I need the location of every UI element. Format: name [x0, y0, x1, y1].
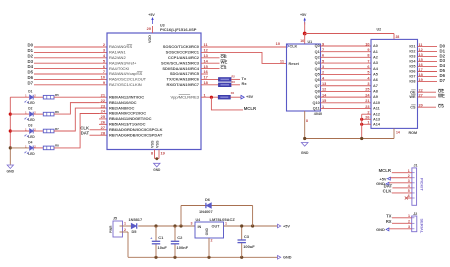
svg-text:D2: D2 — [28, 53, 34, 58]
svg-text:7: 7 — [322, 48, 324, 52]
svg-text:C2: C2 — [177, 235, 183, 240]
svg-text:D5: D5 — [28, 70, 34, 75]
svg-text:SERIAL: SERIAL — [420, 219, 425, 234]
svg-text:SCK/SCL/AN15/RC3: SCK/SCL/AN15/RC3 — [161, 60, 200, 65]
svg-text:6: 6 — [408, 194, 410, 198]
svg-text:DAT: DAT — [81, 131, 90, 136]
svg-text:D2: D2 — [28, 107, 32, 111]
svg-text:1N4007: 1N4007 — [199, 209, 213, 214]
svg-text:IO1: IO1 — [409, 45, 415, 49]
svg-text:R7: R7 — [55, 127, 59, 131]
svg-text:7: 7 — [367, 59, 369, 63]
svg-text:3: 3 — [367, 82, 369, 86]
svg-text:2: 2 — [408, 219, 410, 223]
svg-text:RA1/AN1: RA1/AN1 — [109, 50, 126, 55]
svg-text:IN: IN — [198, 225, 202, 229]
svg-text:RA4/T0CKI: RA4/T0CKI — [109, 66, 129, 71]
svg-text:28: 28 — [396, 35, 400, 39]
svg-text:VSS: VSS — [155, 140, 159, 148]
svg-text:Rx: Rx — [242, 81, 248, 86]
svg-text:2: 2 — [322, 71, 324, 75]
svg-text:A8: A8 — [373, 90, 378, 94]
svg-text:100nF: 100nF — [177, 245, 189, 250]
svg-text:RB7/ADGRDB/IOC/ICSPDAT: RB7/ADGRDB/IOC/ICSPDAT — [109, 132, 163, 137]
svg-text:RB3/AN9/CCP2/IOC: RB3/AN9/CCP2/IOC — [109, 111, 146, 116]
svg-text:CLK: CLK — [383, 189, 393, 194]
svg-text:D7: D7 — [28, 80, 34, 85]
svg-text:PICKIT: PICKIT — [420, 178, 425, 191]
svg-text:OE: OE — [410, 90, 416, 94]
svg-text:MCLR: MCLR — [379, 168, 392, 173]
svg-text:Q4: Q4 — [315, 67, 321, 71]
svg-text:D3: D3 — [28, 59, 34, 64]
svg-text:16: 16 — [419, 63, 423, 67]
svg-text:RX: RX — [386, 219, 392, 224]
svg-text:PIC16(L)F1516-I/SP: PIC16(L)F1516-I/SP — [160, 27, 197, 32]
svg-text:RB5/AN13/T1G/IOC: RB5/AN13/T1G/IOC — [109, 122, 146, 127]
svg-text:RB1/AN10/IOC: RB1/AN10/IOC — [109, 100, 137, 105]
svg-text:18: 18 — [419, 73, 423, 77]
svg-text:GND: GND — [301, 151, 309, 155]
svg-text:IO2: IO2 — [409, 50, 415, 54]
svg-text:12: 12 — [419, 48, 423, 52]
svg-text:SOSCO/T1CKI/RC0: SOSCO/T1CKI/RC0 — [163, 44, 200, 49]
svg-text:A13: A13 — [373, 117, 380, 121]
svg-text:1: 1 — [124, 222, 126, 226]
svg-text:A11: A11 — [373, 107, 380, 111]
svg-text:17: 17 — [204, 75, 208, 80]
svg-text:8: 8 — [306, 119, 308, 123]
svg-text:IO6: IO6 — [409, 70, 415, 74]
svg-text:5: 5 — [408, 189, 410, 193]
svg-text:GND: GND — [376, 227, 385, 232]
svg-text:IO3: IO3 — [409, 55, 415, 59]
svg-text:A0: A0 — [373, 44, 378, 48]
svg-text:RB2/AN8/IOC: RB2/AN8/IOC — [109, 105, 134, 110]
svg-text:27: 27 — [101, 125, 105, 130]
svg-text:10: 10 — [365, 42, 369, 46]
svg-text:IO8: IO8 — [409, 80, 415, 84]
svg-text:OE: OE — [221, 54, 227, 59]
svg-text:OUT: OUT — [211, 225, 220, 229]
svg-text:IO4: IO4 — [409, 60, 416, 64]
svg-text:A7: A7 — [373, 84, 378, 88]
svg-text:VSS: VSS — [150, 140, 154, 148]
svg-text:SDO/AN17/RC5: SDO/AN17/RC5 — [170, 71, 200, 76]
svg-text:15: 15 — [419, 58, 423, 62]
svg-text:Q2: Q2 — [315, 55, 320, 59]
svg-text:GND: GND — [7, 169, 15, 173]
svg-text:R5: R5 — [55, 93, 59, 97]
svg-text:15: 15 — [322, 99, 326, 103]
svg-text:IO7: IO7 — [409, 75, 415, 79]
svg-text:3: 3 — [408, 179, 410, 183]
svg-text:U2: U2 — [377, 27, 382, 31]
svg-text:10uF: 10uF — [158, 245, 168, 250]
svg-text:1: 1 — [408, 214, 410, 218]
svg-text:MCLR: MCLR — [244, 106, 257, 111]
svg-text:22: 22 — [419, 89, 423, 93]
svg-text:GND: GND — [205, 227, 209, 235]
svg-text:Q3: Q3 — [315, 61, 320, 65]
svg-text:SDI/SDA/AN16/RC4: SDI/SDA/AN16/RC4 — [162, 66, 199, 71]
svg-text:A5: A5 — [373, 73, 378, 77]
svg-text:23: 23 — [365, 105, 369, 109]
svg-text:SOSCI/CCP2/RC1: SOSCI/CCP2/RC1 — [166, 50, 200, 55]
svg-text:PWR: PWR — [109, 225, 113, 233]
svg-text:2: 2 — [408, 174, 410, 178]
svg-text:CS: CS — [410, 105, 416, 109]
svg-text:1: 1 — [322, 105, 324, 109]
svg-text:Tx: Tx — [242, 76, 247, 81]
svg-text:D7: D7 — [440, 78, 446, 83]
svg-text:TX: TX — [386, 214, 392, 219]
svg-text:Vpp/MCLR/RE3: Vpp/MCLR/RE3 — [171, 94, 200, 99]
svg-text:IO5: IO5 — [409, 65, 415, 69]
svg-text:LED: LED — [28, 118, 35, 122]
svg-text:RA5/AN4/Vcap/SS: RA5/AN4/Vcap/SS — [109, 71, 143, 76]
svg-text:13: 13 — [322, 82, 326, 86]
svg-text:4: 4 — [408, 184, 410, 188]
svg-text:9: 9 — [322, 42, 324, 46]
svg-text:CS: CS — [221, 65, 227, 70]
svg-text:A14: A14 — [373, 122, 381, 126]
svg-text:Reset: Reset — [289, 62, 300, 66]
svg-text:U1: U1 — [308, 40, 313, 44]
svg-text:4040: 4040 — [314, 112, 322, 116]
svg-text:R6: R6 — [55, 110, 59, 114]
svg-text:Q7: Q7 — [315, 84, 320, 88]
svg-text:RA2/AN2: RA2/AN2 — [109, 55, 126, 60]
svg-text:LED: LED — [28, 152, 35, 156]
svg-text:1: 1 — [225, 222, 227, 226]
svg-text:RA0/AN0/SS: RA0/AN0/SS — [109, 44, 132, 49]
svg-text:Q1: Q1 — [315, 50, 320, 54]
svg-text:LED: LED — [28, 101, 35, 105]
svg-text:RA6/OSC2/CLKOUT: RA6/OSC2/CLKOUT — [109, 77, 147, 82]
svg-text:CLK: CLK — [290, 44, 298, 48]
svg-text:RB4/AN11/NDGET/IOC: RB4/AN11/NDGET/IOC — [109, 116, 152, 121]
svg-text:J2: J2 — [413, 212, 417, 216]
svg-text:A2: A2 — [373, 55, 378, 59]
svg-text:RB6/ADGRDN/IOC/ICSPCLK: RB6/ADGRDN/IOC/ICSPCLK — [109, 127, 163, 132]
svg-text:A3: A3 — [373, 61, 378, 65]
svg-text:20: 20 — [147, 26, 151, 31]
svg-text:+: + — [150, 237, 152, 241]
svg-text:RB0/AN12/INT/IOC: RB0/AN12/INT/IOC — [109, 94, 144, 99]
svg-text:J1: J1 — [414, 164, 418, 168]
svg-text:GND: GND — [153, 168, 161, 172]
svg-text:A1: A1 — [373, 50, 378, 54]
svg-text:Q6: Q6 — [315, 78, 320, 82]
svg-text:100uF: 100uF — [243, 244, 255, 249]
svg-text:R3: R3 — [232, 80, 236, 84]
svg-text:R8: R8 — [55, 144, 59, 148]
svg-text:17: 17 — [419, 68, 423, 72]
svg-text:20: 20 — [419, 104, 423, 108]
svg-text:TX/CK/AN18/RC6: TX/CK/AN18/RC6 — [167, 77, 200, 82]
svg-text:R4: R4 — [231, 91, 235, 95]
svg-text:11: 11 — [419, 43, 423, 47]
svg-text:C3: C3 — [244, 234, 250, 239]
svg-text:21: 21 — [365, 99, 369, 103]
svg-text:Q5: Q5 — [315, 73, 320, 77]
svg-text:D6: D6 — [205, 197, 211, 202]
svg-text:RA3/AN3/Vref+: RA3/AN3/Vref+ — [109, 60, 137, 65]
svg-text:9: 9 — [367, 48, 369, 52]
svg-text:6: 6 — [367, 65, 369, 69]
svg-text:D1: D1 — [28, 90, 32, 94]
svg-text:2: 2 — [124, 228, 126, 232]
svg-text:16: 16 — [300, 39, 304, 43]
svg-text:Q10: Q10 — [313, 101, 320, 105]
svg-text:+5V: +5V — [148, 13, 155, 17]
svg-text:WE: WE — [221, 60, 228, 65]
svg-text:13: 13 — [419, 53, 423, 57]
svg-text:7: 7 — [103, 69, 105, 74]
svg-text:+5V: +5V — [300, 13, 307, 17]
svg-text:8: 8 — [367, 54, 369, 58]
svg-text:WE: WE — [409, 95, 416, 99]
svg-text:C1: C1 — [158, 235, 164, 240]
svg-text:10: 10 — [101, 75, 105, 80]
svg-text:D3: D3 — [28, 123, 32, 127]
svg-text:A9: A9 — [373, 95, 378, 99]
svg-text:GND: GND — [283, 256, 292, 260]
svg-text:VDD: VDD — [148, 35, 152, 43]
svg-text:12: 12 — [322, 88, 326, 92]
svg-text:LM78L05ACZ: LM78L05ACZ — [210, 217, 236, 222]
svg-text:RX/DT/AN19/RC7: RX/DT/AN19/RC7 — [167, 82, 200, 87]
svg-text:R2: R2 — [232, 75, 236, 79]
svg-text:D0: D0 — [28, 43, 34, 48]
svg-text:+5V: +5V — [246, 94, 254, 99]
svg-text:6: 6 — [322, 54, 324, 58]
svg-text:U4: U4 — [196, 218, 201, 222]
svg-text:D4: D4 — [28, 140, 32, 144]
svg-text:A12: A12 — [373, 112, 380, 116]
svg-text:D6: D6 — [28, 75, 34, 80]
svg-text:D5: D5 — [132, 229, 138, 234]
svg-text:5: 5 — [322, 59, 324, 63]
svg-text:RA7/OSC1/CLKIN: RA7/OSC1/CLKIN — [109, 82, 142, 87]
svg-text:27: 27 — [419, 93, 423, 97]
svg-text:+5V: +5V — [283, 224, 290, 228]
svg-text:2: 2 — [211, 239, 213, 243]
svg-text:LED: LED — [28, 135, 35, 139]
svg-text:3: 3 — [322, 65, 324, 69]
svg-text:14: 14 — [396, 131, 400, 135]
svg-text:D4: D4 — [28, 64, 34, 69]
svg-text:3: 3 — [408, 225, 410, 229]
svg-text:Q8: Q8 — [315, 90, 320, 94]
svg-text:CLK: CLK — [80, 125, 89, 130]
svg-text:D1: D1 — [28, 48, 34, 53]
svg-text:25: 25 — [365, 88, 369, 92]
svg-text:3: 3 — [191, 222, 193, 226]
svg-text:CCP1/AN14/RC2: CCP1/AN14/RC2 — [168, 55, 200, 60]
svg-text:ROM: ROM — [409, 131, 418, 135]
svg-text:Q0: Q0 — [315, 44, 320, 48]
svg-text:1N5817: 1N5817 — [129, 217, 143, 222]
svg-text:10: 10 — [276, 41, 280, 46]
svg-text:1: 1 — [408, 169, 410, 173]
svg-text:A6: A6 — [373, 78, 378, 82]
svg-text:Q11: Q11 — [313, 107, 320, 111]
svg-text:Q9: Q9 — [315, 95, 320, 99]
svg-text:19: 19 — [419, 78, 423, 82]
svg-text:5: 5 — [367, 71, 369, 75]
svg-text:J5: J5 — [113, 217, 117, 221]
svg-text:A10: A10 — [373, 101, 380, 105]
